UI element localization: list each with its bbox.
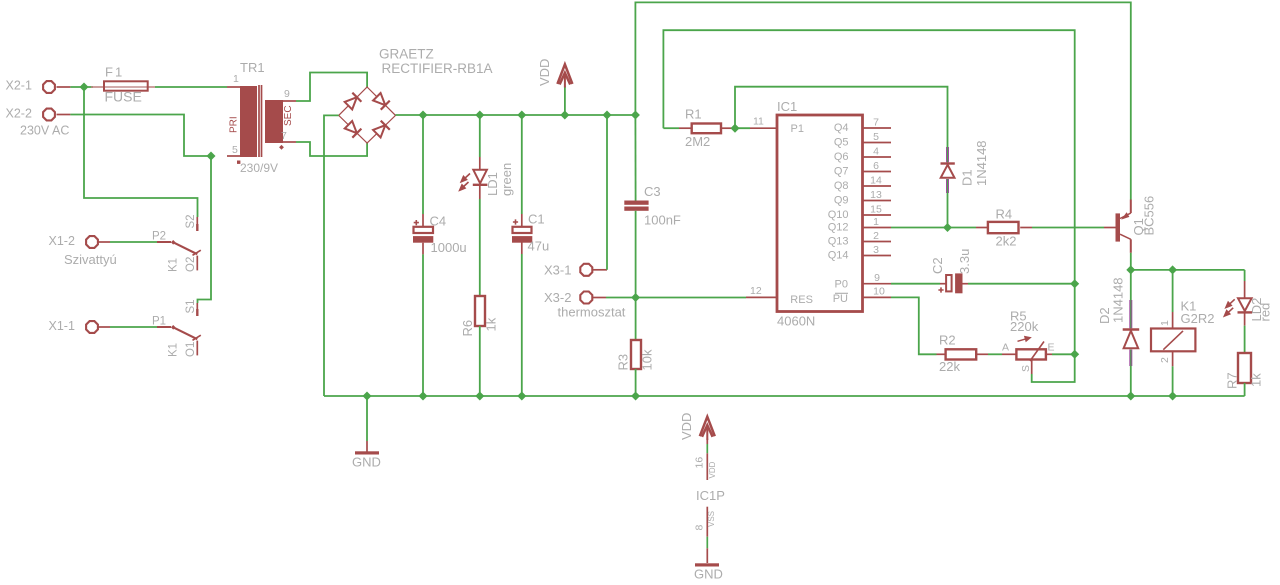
svg-text:X1-2: X1-2 [49, 234, 75, 248]
svg-text:P1: P1 [152, 316, 166, 328]
wire X3-1 to VDD rail [606, 115, 608, 270]
plus sign C2 [938, 287, 943, 292]
resistor R4 body [988, 222, 1019, 233]
svg-text:P1: P1 [791, 123, 804, 135]
wire R6 to ground rail [479, 326, 481, 396]
wire bridge minus to ground rail [324, 115, 339, 396]
svg-text:1: 1 [1159, 320, 1171, 326]
wire R7 to ground rail [1244, 383, 1246, 396]
wire F1 to TR1 pin1 [155, 86, 227, 88]
pin stub X2-2 [57, 114, 71, 116]
pin stub Q1 base [1104, 227, 1116, 229]
pin stub C4 bottom [422, 243, 424, 255]
overline PU [835, 292, 848, 294]
pin stub C2 plus [940, 283, 946, 285]
svg-text:BC556: BC556 [1142, 196, 1157, 236]
svg-text:47u: 47u [528, 239, 550, 254]
plus sign C1 [513, 219, 518, 224]
svg-text:LD1: LD1 [485, 172, 500, 196]
relay coil K1 [1151, 329, 1195, 352]
svg-text:Q8: Q8 [834, 180, 849, 192]
svg-text:red: red [1258, 303, 1273, 322]
pin stub X1-1 [98, 326, 110, 328]
pin stub K1 pin 2 [1172, 351, 1174, 366]
resistor R6 body [475, 296, 485, 326]
wire Q1 collector to node [1130, 253, 1132, 270]
junction ground rail R3 [631, 392, 640, 401]
svg-text:1N4148: 1N4148 [1111, 277, 1126, 323]
wire TR1 pin9 to bridge top [296, 73, 367, 102]
pin stub C1 top [521, 214, 523, 228]
svg-text:Szivattyú: Szivattyú [64, 252, 117, 267]
svg-text:R3: R3 [616, 354, 631, 371]
pin stub LD2 cathode [1244, 313, 1246, 325]
pin stub R1 right [721, 127, 733, 129]
svg-text:C3: C3 [644, 184, 661, 199]
wire VDD to Q1 emitter (top) [635, 2, 1130, 199]
transformer TR1 primary winding [241, 87, 256, 156]
junction collector D2 [1126, 265, 1135, 274]
wire R1 left to R5 S (outer loop) [663, 30, 1074, 382]
svg-text:9: 9 [284, 88, 290, 100]
svg-text:Q6: Q6 [834, 151, 849, 163]
svg-text:A: A [1002, 342, 1009, 354]
wire VDD rail [396, 114, 636, 116]
ground symbol IC1P GND [695, 563, 719, 566]
svg-text:R6: R6 [460, 320, 475, 337]
svg-text:E: E [1048, 342, 1055, 354]
junction X2-1 node [80, 83, 89, 92]
svg-text:5: 5 [873, 131, 879, 143]
svg-text:G2R2: G2R2 [1181, 311, 1215, 326]
junction R1 pin11 [731, 124, 740, 133]
ground symbol GND [355, 396, 379, 455]
pin stub IC1 P0 pin 9 [863, 283, 891, 285]
wire node to D2 [1130, 270, 1132, 300]
pin stub IC1 Q6 pin 4 [863, 156, 891, 158]
LED LD2 arrows [1224, 299, 1234, 316]
pad X1-1 [86, 321, 98, 333]
junction VDD rail C3 [631, 111, 640, 120]
capacitor C1 bottom plate [512, 236, 532, 243]
fuse F1 through line [104, 86, 148, 88]
junction ground rail R6 [475, 392, 484, 401]
junction X3-2 R3 [631, 293, 640, 302]
IC U1 4060N box [777, 115, 863, 312]
svg-text:220k: 220k [1010, 319, 1039, 334]
wire LD1 to R6 [479, 199, 481, 296]
junction VDD rail X3-1 [603, 111, 612, 120]
relay contact K1 upper (P2/S2/O2) [157, 217, 201, 270]
svg-text:Q4: Q4 [834, 122, 849, 134]
pin stub TR1 pin7 [282, 141, 296, 143]
pin stub IC1 Q5 pin 5 [863, 142, 891, 144]
wire X1-1 to contact P1 [110, 326, 157, 328]
pin stub IC1 Q4 pin 7 [863, 127, 891, 129]
wire R2 to R5 A [988, 353, 1002, 355]
svg-text:VSS: VSS [707, 511, 716, 527]
svg-text:GRAETZ: GRAETZ [379, 46, 434, 61]
svg-text:R1: R1 [685, 107, 702, 122]
capacitor C4 bottom plate [413, 236, 433, 243]
svg-text:Q14: Q14 [828, 250, 849, 262]
svg-text:Q5: Q5 [834, 137, 849, 149]
svg-text:K1: K1 [168, 258, 180, 272]
pin stub R2 right [976, 353, 988, 355]
svg-text:green: green [499, 163, 514, 196]
junction C2 vertical [1070, 279, 1079, 288]
svg-text:10k: 10k [640, 349, 655, 370]
pad X2-1 [43, 81, 55, 93]
pin stub X1-2 [98, 241, 110, 243]
junction Q12 node [943, 223, 952, 232]
svg-text:R2: R2 [939, 333, 956, 348]
wire collector node row [1131, 269, 1245, 271]
pin stub LD2 anode [1244, 281, 1246, 298]
LED LD2 [1238, 298, 1253, 312]
wire to R1 left [663, 127, 679, 129]
svg-text:P0: P0 [835, 279, 848, 291]
svg-text:VDD: VDD [537, 59, 552, 86]
svg-text:PRI: PRI [229, 116, 240, 133]
resistor R3 body [631, 340, 641, 369]
pad X2-2 [43, 109, 55, 121]
svg-text:SEC: SEC [283, 105, 294, 126]
junction ground rail K1 [1168, 392, 1177, 401]
wire TR1 pin5 node to contact S1 [198, 156, 212, 303]
pad X3-1 [580, 264, 592, 276]
svg-text:R4: R4 [996, 207, 1013, 222]
transformer TR1 core line 2 [261, 85, 263, 157]
svg-text:X3-2: X3-2 [544, 290, 571, 305]
potentiometer R5 body [1016, 349, 1046, 359]
bridge diode bottom-left [344, 120, 361, 137]
svg-text:1N4148: 1N4148 [974, 140, 989, 186]
resistor R7 body [1238, 353, 1251, 383]
wire VDD to C3 [634, 115, 636, 201]
LED LD1 arrows [460, 174, 470, 191]
svg-text:O2: O2 [185, 257, 197, 272]
svg-text:10: 10 [873, 286, 885, 298]
svg-text:14: 14 [870, 175, 882, 187]
svg-text:4060N: 4060N [777, 314, 815, 329]
pin stub F1 left [91, 86, 104, 88]
relay coil K1 diagonal [1163, 331, 1183, 350]
wire R1 right to pin 11 [733, 127, 750, 129]
svg-text:2: 2 [1159, 357, 1171, 363]
wire VDD to LD1 [479, 115, 481, 157]
pin stub IC1 Q10 pin 15 [863, 214, 891, 216]
svg-text:X3-1: X3-1 [544, 263, 571, 278]
junction VDD rail C4 [419, 111, 428, 120]
pin stub F1 right [148, 86, 155, 88]
pin stub IC1 Q14 pin 3 [863, 255, 891, 257]
pin stub IC1 Q7 pin 6 [863, 171, 891, 173]
transformer phase dot near pin7 [279, 145, 284, 150]
junction VDD rail LD1 [475, 111, 484, 120]
svg-text:RECTIFIER-RB1A: RECTIFIER-RB1A [382, 61, 493, 76]
pin stub R1 left [679, 127, 692, 129]
resistor R2 body [946, 349, 977, 359]
svg-text:9: 9 [874, 272, 880, 284]
svg-text:S1: S1 [185, 299, 197, 313]
svg-text:RES: RES [790, 294, 813, 306]
svg-text:D1: D1 [960, 169, 975, 186]
wire LD2 to R7 [1244, 326, 1246, 353]
capacitor C3 plate 1 [624, 201, 648, 205]
transformer TR1 secondary winding [266, 101, 282, 142]
wire VDD to C4 [422, 115, 424, 214]
svg-text:FUSE: FUSE [105, 89, 142, 105]
wire X1-2 to contact P2 [110, 241, 157, 243]
bridge rectifier diamond [339, 87, 396, 143]
pin stub TR1 pin5 [227, 155, 241, 157]
pin stub R4 right [1020, 227, 1032, 229]
wire X2-2 to TR1 pin5 [70, 115, 211, 157]
svg-text:2M2: 2M2 [685, 134, 710, 149]
svg-text:3: 3 [873, 244, 879, 256]
junction R5 E vertical [1070, 350, 1079, 359]
bridge diode top-left [344, 93, 361, 110]
wire TR1 pin7 to bridge bottom [296, 142, 367, 156]
pin stub IC1 Q9 pin 13 [863, 200, 891, 202]
wire node to R4 [948, 227, 977, 229]
pin stub TR1 pin9 [282, 100, 296, 102]
junction ground rail D2 [1126, 392, 1135, 401]
transformer phase dot near pin5 [237, 161, 240, 164]
svg-text:13: 13 [870, 189, 882, 201]
svg-text:100nF: 100nF [644, 213, 681, 228]
svg-text:230/9V: 230/9V [240, 161, 278, 175]
pin stub K1 pin 1 [1172, 312, 1174, 329]
svg-text:Q12: Q12 [828, 222, 849, 234]
svg-text:1000u: 1000u [431, 240, 467, 255]
bridge diode top-right [372, 92, 389, 109]
svg-text:4: 4 [873, 146, 879, 158]
wire C2 to vertical net [968, 283, 1075, 285]
wire node to LD2 [1244, 270, 1246, 281]
plus sign C4 [414, 220, 419, 225]
svg-text:PU: PU [833, 293, 848, 305]
svg-text:P2: P2 [152, 231, 166, 243]
wire C3 to R3 [635, 211, 637, 340]
svg-text:S: S [1020, 365, 1032, 372]
svg-text:S2: S2 [185, 214, 197, 228]
bridge diode bottom-right [372, 121, 389, 138]
resistor R1 body [692, 124, 721, 134]
svg-text:TR1: TR1 [240, 60, 265, 75]
pin stub R5 S [1031, 360, 1033, 375]
pin stub R2 left [937, 353, 946, 355]
svg-text:X2-1: X2-1 [6, 79, 32, 93]
wire P0 to C2 [891, 283, 940, 285]
IC1P pin 8 VSS [706, 507, 708, 563]
junction VDD rail C1 [517, 111, 526, 120]
wire D2 to ground rail [1130, 366, 1132, 396]
svg-text:F1: F1 [105, 65, 124, 80]
svg-text:1: 1 [233, 73, 239, 85]
pin stub C4 top [422, 214, 424, 227]
svg-text:22k: 22k [939, 359, 960, 374]
pin stub R5 E [1046, 353, 1052, 355]
IC1P pin 16 VDD [706, 439, 708, 481]
pin stub R5 A [1002, 353, 1016, 355]
pin stub IC1 PU pin 10 [863, 296, 891, 298]
potentiometer R5 arrow [1018, 337, 1031, 342]
svg-text:6: 6 [873, 160, 879, 172]
svg-text:IC1P: IC1P [696, 488, 725, 503]
svg-text:C4: C4 [430, 214, 447, 229]
wire ground rail [324, 395, 1245, 397]
pin stub IC1 Q13 pin 2 [863, 241, 891, 243]
capacitor C1 top plate [513, 227, 532, 233]
capacitor C2 left plate [946, 275, 952, 291]
wire X2-1 node to contact S2 [84, 87, 198, 217]
pin stub IC1 Q8 pin 14 [863, 185, 891, 187]
svg-text:Q7: Q7 [834, 166, 849, 178]
junction ground rail C1 [517, 392, 526, 401]
wire R3 to ground rail [635, 369, 637, 396]
svg-text:5: 5 [232, 144, 238, 156]
pin stub IC1 pin 11 [750, 127, 777, 129]
diode D1 [941, 147, 955, 193]
wire PU to R2 [891, 297, 937, 354]
svg-text:VDD: VDD [708, 461, 717, 478]
wire VDD to C1 [521, 115, 523, 214]
svg-text:O1: O1 [185, 342, 197, 357]
wire Q12 pin to node [891, 227, 948, 229]
svg-text:VDD: VDD [679, 413, 694, 440]
LED LD1 [473, 170, 488, 185]
svg-text:2: 2 [873, 230, 879, 242]
pad X1-2 [86, 236, 98, 248]
wire node to K1 coil [1172, 270, 1174, 312]
svg-text:GND: GND [352, 455, 381, 470]
transformer TR1 core line 1 [258, 85, 260, 157]
svg-text:2k2: 2k2 [996, 234, 1017, 249]
power symbol VDD top [557, 64, 572, 115]
svg-text:R7: R7 [1225, 372, 1240, 389]
svg-text:Q9: Q9 [834, 195, 849, 207]
pin stub C1 bottom [521, 243, 523, 255]
junction ground rail GND [363, 392, 372, 401]
svg-text:3.3u: 3.3u [957, 249, 972, 274]
wire R5 E to vertical net [1052, 353, 1075, 355]
transistor Q1 BC556 [1116, 200, 1131, 253]
power symbol IC1P VDD arrow [700, 417, 715, 440]
pin stub IC1 Q12 pin 1 [863, 227, 891, 229]
junction TR1 pin5 node [207, 152, 216, 161]
relay contact K1 lower (P1/S1/O1) [157, 303, 201, 355]
svg-text:GND: GND [694, 567, 723, 582]
wire C4 to ground rail [422, 254, 424, 396]
fuse F1 body [104, 81, 148, 90]
diode D2 [1123, 300, 1140, 366]
svg-text:7: 7 [281, 130, 287, 142]
svg-text:230V AC: 230V AC [20, 123, 69, 137]
pin stub LD1 anode [479, 157, 481, 170]
pin stub TR1 pin1 [227, 86, 241, 88]
pin stub X2-1 [57, 86, 71, 88]
svg-text:Q10: Q10 [828, 209, 849, 221]
svg-text:12: 12 [750, 285, 762, 297]
junction ground rail C4 [419, 392, 428, 401]
svg-text:16: 16 [693, 457, 705, 469]
pin stub R4 left [976, 227, 988, 229]
svg-text:7: 7 [873, 117, 879, 129]
svg-text:C1: C1 [528, 212, 545, 227]
capacitor C2 right plate [955, 273, 962, 293]
junction VDD rail VDD symbol [560, 111, 569, 120]
svg-text:thermosztat: thermosztat [558, 305, 626, 320]
pad X3-2 [580, 292, 592, 304]
svg-text:X1-1: X1-1 [49, 319, 75, 333]
svg-text:Q13: Q13 [828, 236, 849, 248]
svg-text:8: 8 [693, 525, 705, 531]
svg-text:11: 11 [753, 116, 764, 128]
pin stub X3-2 [592, 297, 607, 299]
wire X2-1 to F1 [70, 86, 93, 88]
wire R4 to Q1 base [1032, 227, 1104, 229]
potentiometer R5 wiper [1030, 342, 1044, 362]
wire C1 to ground rail [521, 254, 523, 396]
svg-text:1k: 1k [484, 317, 499, 331]
junction collector K1 [1168, 265, 1177, 274]
pin stub IC1 pin 12 [746, 296, 777, 298]
svg-text:IC1: IC1 [777, 99, 797, 114]
svg-text:15: 15 [870, 204, 882, 216]
pin stub LD1 cathode [479, 186, 481, 199]
wire X3-2 to IC1 RES [606, 297, 746, 299]
wire D1 anode to Q12 node [947, 193, 949, 228]
wire K1 to ground rail [1172, 366, 1174, 396]
svg-text:1: 1 [873, 216, 879, 228]
pin stub X3-1 [592, 269, 608, 271]
svg-text:1k: 1k [1249, 373, 1264, 387]
capacitor C3 plate 2 [624, 207, 648, 211]
pin stub C2 right [963, 283, 969, 285]
wire pin11 node to D1 cathode [735, 87, 948, 147]
capacitor C4 top plate [414, 227, 434, 233]
svg-text:X2-2: X2-2 [6, 106, 32, 120]
svg-text:K1: K1 [168, 343, 180, 357]
svg-text:C2: C2 [930, 257, 945, 274]
